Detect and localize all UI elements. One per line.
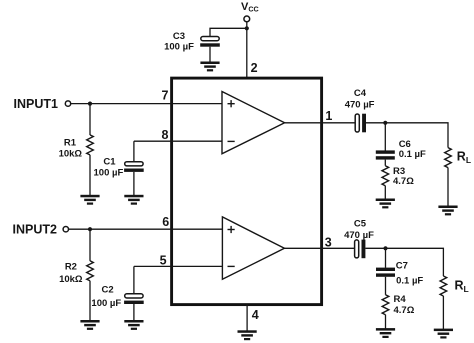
svg-text:4: 4 [252, 308, 259, 322]
wire pin 5 [134, 265, 223, 267]
svg-text:100 µF: 100 µF [164, 42, 194, 53]
ground (RL1) [438, 206, 457, 216]
svg-text:C3: C3 [173, 31, 185, 42]
wire C5 to RL2 [365, 248, 443, 276]
svg-text:10kΩ: 10kΩ [59, 149, 83, 160]
capacitor C6 [376, 150, 395, 159]
label R2 [59, 262, 83, 285]
svg-text:0.1 µF: 0.1 µF [399, 149, 426, 160]
label C6 [399, 139, 426, 160]
svg-text:R1: R1 [64, 138, 77, 149]
wire junction to R2 [89, 229, 91, 261]
svg-text:C2: C2 [102, 285, 114, 296]
op-amp U1A [222, 92, 285, 154]
node INPUT1 junction [88, 102, 92, 106]
wire C4 to RL1 [366, 123, 448, 148]
ground (R3) [376, 199, 395, 209]
label C5 [344, 218, 374, 241]
svg-text:4.7Ω: 4.7Ω [393, 176, 414, 187]
resistor R3 [382, 166, 389, 186]
wire RL2 to ground [442, 296, 444, 329]
resistor R2 [87, 261, 94, 281]
VCC terminal [244, 16, 250, 22]
wire pin 1 output [285, 122, 356, 124]
pin 1 label [325, 109, 332, 123]
ground (R1) [80, 195, 99, 205]
label C3 [164, 31, 194, 53]
svg-text:3: 3 [325, 236, 332, 250]
wire pin5 down to C2 [133, 266, 135, 293]
pin 7 label [161, 88, 168, 102]
wire C1 to ground [133, 172, 135, 195]
capacitor C7 [376, 268, 395, 277]
svg-text:C7: C7 [396, 261, 408, 272]
resistor R1 [87, 135, 94, 155]
wire pin 8 [134, 140, 222, 142]
wire junction to C7 [385, 248, 387, 267]
ground (R2) [80, 320, 99, 330]
svg-text:INPUT1: INPUT1 [14, 97, 59, 111]
wire pin 6 [69, 228, 223, 230]
wire C2 to ground [133, 304, 135, 320]
svg-text:R4: R4 [394, 294, 407, 305]
svg-text:470 µF: 470 µF [344, 230, 374, 241]
wire R1 to ground [89, 155, 91, 195]
resistor RL1 [445, 148, 452, 168]
svg-text:4.7Ω: 4.7Ω [394, 305, 415, 316]
label C4 [345, 88, 375, 111]
wire pin8 down to C1 [133, 141, 135, 162]
svg-text:100 µF: 100 µF [94, 168, 124, 179]
wire pin 3 output [284, 247, 354, 249]
ground (R4) [376, 328, 395, 338]
svg-text:R2: R2 [65, 262, 77, 273]
wire junction to R1 [89, 104, 91, 135]
wire RL1 to ground [447, 168, 449, 206]
INPUT2 label [13, 222, 58, 236]
op-amp U1B plus input [228, 226, 235, 233]
wire junction to C6 [384, 123, 386, 151]
op-amp U1A minus input [228, 140, 235, 142]
svg-text:470 µF: 470 µF [345, 100, 375, 111]
wire R4 to ground [385, 315, 387, 329]
label C7 [396, 261, 424, 287]
label R3 [393, 166, 414, 187]
pin 3 label [325, 236, 332, 250]
capacitor C4 [355, 114, 366, 133]
resistor R4 [382, 295, 389, 315]
label C1 [94, 157, 124, 179]
svg-text:10kΩ: 10kΩ [59, 274, 83, 285]
label RL2 [455, 279, 469, 294]
capacitor C1 [124, 162, 144, 172]
IC package box U1 [172, 78, 322, 305]
pin 4 label [252, 308, 259, 322]
svg-text:0.1 µF: 0.1 µF [396, 276, 423, 287]
ground (RL2) [434, 329, 453, 339]
wire R3 to ground [384, 186, 386, 199]
wire C7 to R4 [385, 277, 387, 295]
wire C3 to ground [209, 47, 211, 62]
op-amp U1B [222, 217, 284, 279]
label R1 [59, 138, 83, 160]
svg-text:C5: C5 [354, 218, 367, 229]
capacitor C2 [124, 294, 144, 304]
resistor RL2 [440, 276, 447, 296]
pin 8 label [161, 128, 168, 142]
capacitor C5 [355, 240, 366, 259]
node VCC junction [245, 26, 249, 30]
wire pin 4 [246, 304, 248, 331]
pin 6 label [162, 215, 169, 229]
pin 2 label [251, 61, 258, 75]
label R4 [394, 294, 415, 316]
ground (C3) [200, 62, 219, 72]
op-amp U1A plus input [228, 100, 235, 107]
capacitor C3 [200, 37, 220, 47]
ground (pin 4) [238, 330, 257, 340]
node output2 junction [383, 246, 387, 250]
net VCC label [241, 1, 259, 14]
wire R2 to ground [89, 281, 91, 321]
label RL1 [457, 150, 471, 165]
op-amp U1B minus input [228, 265, 235, 267]
pin 5 label [160, 254, 167, 268]
svg-text:100 µF: 100 µF [91, 298, 121, 309]
wire VCC to pin 2 [246, 21, 248, 77]
node output1 junction [383, 121, 387, 125]
svg-text:7: 7 [161, 88, 168, 102]
INPUT2 terminal [63, 227, 68, 232]
wire junction to C3 [210, 28, 247, 36]
ground (C2) [124, 320, 143, 330]
svg-text:C4: C4 [354, 88, 367, 99]
svg-text:C1: C1 [103, 157, 116, 168]
svg-text:1: 1 [325, 109, 332, 123]
svg-text:R3: R3 [393, 166, 405, 177]
svg-text:8: 8 [161, 128, 168, 142]
node INPUT2 junction [88, 227, 92, 231]
svg-text:5: 5 [160, 254, 167, 268]
ground (C1) [124, 195, 143, 205]
INPUT1 terminal [65, 101, 70, 106]
wire pin 7 [71, 103, 222, 105]
INPUT1 label [14, 97, 59, 111]
wire C6 to R3 [384, 160, 386, 166]
label C2 [91, 285, 121, 309]
svg-text:2: 2 [251, 61, 258, 75]
svg-text:6: 6 [162, 215, 169, 229]
svg-text:INPUT2: INPUT2 [13, 222, 58, 236]
